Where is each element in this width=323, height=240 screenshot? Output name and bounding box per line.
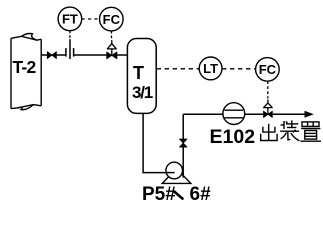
control valve CV2 bbox=[264, 100, 273, 118]
vessel T3/1 bbox=[127, 39, 156, 114]
svg-text:3/1: 3/1 bbox=[132, 83, 153, 102]
arrow out bbox=[305, 111, 314, 118]
instrument FC (flow controller, right) bbox=[256, 58, 280, 82]
glyph 装 bbox=[283, 121, 285, 129]
wire pump outlet riser bbox=[182, 114, 184, 177]
valve V1 bbox=[47, 52, 56, 59]
valve V2 bbox=[180, 139, 188, 147]
svg-text:6#: 6# bbox=[190, 184, 212, 205]
instrument FC (flow controller, top) bbox=[100, 7, 124, 31]
wire pipe orifice to CV1 bbox=[74, 54, 107, 56]
svg-text:T-2: T-2 bbox=[13, 57, 37, 77]
signal wire vessel to LT bbox=[157, 68, 199, 70]
column T-2 bbox=[11, 34, 41, 110]
signal wire FT to FC bbox=[82, 18, 100, 20]
label 出装置 (drawn glyphs) bbox=[261, 120, 321, 141]
glyph 置 bbox=[302, 122, 319, 127]
control valve CV1 bbox=[107, 40, 117, 59]
svg-text:P5#: P5# bbox=[142, 184, 176, 205]
signal wire FC to CV1 bbox=[111, 31, 113, 41]
wire pipe CV2 to arrow bbox=[272, 113, 306, 115]
wire pipe T-2 to orifice bbox=[41, 54, 66, 56]
svg-text:E102: E102 bbox=[210, 126, 256, 148]
wire pipe CV1 to vessel bbox=[117, 54, 128, 56]
signal wire LT to FC bbox=[222, 68, 256, 70]
heat exchanger E102 bbox=[223, 103, 245, 125]
glyph 出 bbox=[268, 124, 270, 141]
svg-text:FC: FC bbox=[259, 62, 277, 77]
ideographic comma bbox=[175, 192, 183, 199]
wire downcomer from vessel bbox=[143, 113, 166, 172]
svg-text:LT: LT bbox=[203, 61, 218, 76]
svg-text:FC: FC bbox=[103, 12, 121, 27]
instrument LT bbox=[199, 57, 222, 80]
wire pipe riser to E102 bbox=[183, 113, 223, 115]
signal wire FC to CV2 bbox=[267, 81, 269, 98]
signal wire FT to orifice bbox=[69, 31, 71, 40]
svg-text:T: T bbox=[133, 63, 144, 83]
svg-text:FT: FT bbox=[62, 12, 78, 27]
pump P5/6 bbox=[162, 162, 191, 183]
instrument FT bbox=[58, 7, 82, 31]
orifice plate FE bbox=[66, 39, 74, 59]
wire pipe E102 to CV2 bbox=[245, 113, 264, 115]
